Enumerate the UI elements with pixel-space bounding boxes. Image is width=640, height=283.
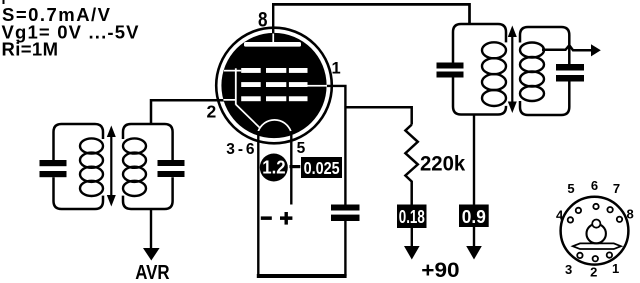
svg-text:Ri=1M: Ri=1M: [2, 39, 59, 60]
capacitor C5: [556, 64, 584, 71]
socket hole 6: [593, 204, 598, 209]
capacitor C4: [437, 63, 464, 69]
capacitor C3 cathode: [331, 205, 360, 211]
tuning arrow T2: [511, 35, 513, 104]
wire AVR: [150, 209, 152, 250]
socket center spigot: [587, 224, 606, 243]
wire T2 bottom: [473, 115, 475, 205]
resistor R1: [405, 125, 417, 205]
grid connector lead: [235, 68, 237, 105]
tank loop L1: [54, 124, 104, 209]
suppressor-cathode diagonal lead: [236, 105, 260, 128]
wire arrow 0.9: [473, 227, 475, 248]
wire pin1: [327, 86, 345, 205]
svg-text:8: 8: [258, 7, 268, 31]
svg-text:0.9: 0.9: [462, 207, 486, 227]
socket hole 4: [568, 217, 573, 222]
svg-text:1: 1: [612, 261, 619, 276]
wire anode cap lower: [344, 221, 346, 276]
grid2 lead to pin1: [308, 85, 327, 87]
svg-text:5: 5: [567, 181, 574, 196]
wire grid pin2 to T1: [151, 100, 224, 124]
arrowhead 0.9: [466, 246, 482, 260]
socket key lug: [592, 220, 600, 228]
arrowhead AVR: [143, 248, 160, 261]
svg-text:1: 1: [332, 59, 341, 77]
anode lead: [272, 33, 274, 43]
tube V1 envelope: [216, 28, 332, 144]
svg-text:8: 8: [626, 206, 633, 221]
coil L3: [482, 42, 506, 58]
tank loop L4: [520, 27, 569, 115]
tube V1 inner disc: [221, 33, 326, 138]
battery 1.2V disc: [260, 154, 288, 182]
arrowhead output: [591, 44, 601, 56]
coil L2: [123, 138, 146, 153]
wire bottom: [257, 274, 347, 278]
grid stub row1: [224, 70, 241, 72]
wire filament right pin5: [290, 131, 292, 205]
anode plate bar: [244, 42, 301, 47]
coil L4: [520, 43, 544, 58]
svg-text:5: 5: [297, 140, 306, 157]
socket hole 1: [607, 252, 612, 257]
svg-text:+90: +90: [421, 258, 459, 282]
socket key bar: [573, 243, 621, 249]
socket hole 3: [577, 253, 582, 258]
plus mark: [280, 216, 292, 220]
socket hole 5: [576, 208, 581, 213]
capacitor C2: [158, 160, 185, 166]
svg-text:AVR: AVR: [135, 261, 170, 283]
coil L1: [80, 138, 103, 153]
label box 0.9: [459, 205, 489, 228]
cathode dome: [258, 120, 291, 132]
socket hole 7: [607, 207, 612, 212]
wire pin8 up: [272, 4, 274, 33]
minus mark: [261, 216, 272, 220]
tank loop L3: [453, 24, 506, 115]
wire branch to R1: [345, 107, 411, 124]
grid row 2: [241, 82, 261, 87]
socket hole 2: [593, 256, 598, 261]
socket outline: [561, 197, 629, 265]
svg-text:2: 2: [590, 265, 597, 280]
svg-text:0.025: 0.025: [304, 158, 340, 178]
svg-text:6: 6: [591, 178, 598, 193]
wire arrow 0.18: [411, 228, 413, 248]
grid row 3: [241, 96, 261, 101]
svg-text:3-6: 3-6: [226, 141, 255, 158]
svg-text:1.2: 1.2: [262, 156, 285, 177]
dash to 0.025: [290, 165, 301, 168]
tank loop L2: [123, 124, 173, 209]
wire top to T2: [272, 4, 470, 25]
stray mark: [3, 0, 5, 4]
label box 0.18: [397, 205, 427, 229]
svg-text:220k: 220k: [420, 152, 465, 176]
wire filament left 3-6: [257, 131, 259, 277]
socket hole 8: [617, 217, 622, 222]
grid stub row3: [223, 99, 235, 101]
svg-text:7: 7: [613, 181, 620, 196]
svg-text:2: 2: [207, 101, 217, 121]
svg-text:4: 4: [556, 207, 564, 222]
tuning arrow T1: [110, 135, 112, 198]
svg-text:0.18: 0.18: [399, 207, 425, 227]
grid row 1: [241, 68, 261, 73]
svg-text:3: 3: [565, 262, 572, 277]
label box 0.025: [301, 157, 342, 178]
output tap wire: [542, 45, 591, 50]
arrowhead 0.18: [404, 246, 420, 260]
capacitor C1: [40, 160, 67, 166]
